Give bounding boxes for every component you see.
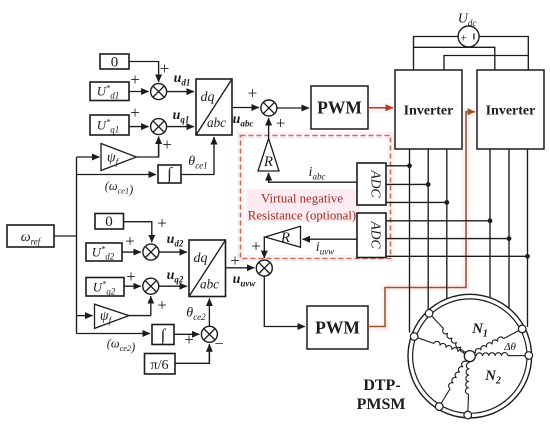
svg-text:π/6: π/6: [151, 358, 169, 373]
label N1: [471, 321, 488, 340]
svg-text:PWM: PWM: [315, 318, 360, 338]
plus sign zero2: [157, 214, 167, 233]
box U*d2: [86, 243, 122, 262]
label N2: [484, 368, 501, 387]
box PWM2: [307, 306, 368, 349]
svg-text:+: +: [276, 114, 286, 133]
label i_abc: [309, 165, 326, 182]
svg-text:Virtual negative: Virtual negative: [261, 192, 343, 206]
wire dq2 to sum uuvw: [226, 267, 255, 269]
dc source U_dc: [458, 26, 479, 47]
box ADC2: [357, 213, 386, 258]
plus sign uabc bottom: [276, 114, 286, 133]
plus sign U*d2: [125, 232, 135, 251]
svg-text:Inverter: Inverter: [404, 104, 454, 119]
amplifier psi_f1: [101, 144, 137, 171]
box zero 1: [100, 54, 129, 71]
plus sign psi_f2: [157, 296, 167, 315]
label u_d2: [167, 232, 184, 249]
wire bus to psi_f1: [77, 156, 100, 158]
label i_uvw: [316, 240, 334, 257]
wire ADC2 tap v: [386, 236, 511, 241]
wire inverter1 phase a: [409, 149, 411, 333]
wire pi6 to sum theta2: [175, 344, 209, 363]
wire speed bus vertical: [76, 157, 78, 334]
svg-text:−: −: [214, 336, 223, 353]
wire psi_f1 to sum uq1: [137, 137, 159, 157]
minus sign theta2: [214, 336, 223, 353]
wire dq1 to sum uabc: [232, 107, 259, 109]
plus sign uabc left: [248, 84, 258, 103]
box pi/6: [145, 354, 176, 375]
motor stator outer ring: [408, 294, 532, 418]
wire PWM2 to inverter2 (brown): [368, 112, 475, 327]
wire sum uq1 to dq1: [167, 126, 194, 128]
wire dc minus rail: [479, 37, 528, 71]
motor hub: [464, 351, 475, 362]
wire sum theta2 to dq2: [208, 299, 210, 327]
wire omega_ref to bus: [54, 235, 77, 237]
wire ADC1 tap a: [386, 163, 412, 168]
summing junction ud2: [143, 244, 159, 260]
box omega_ref: [7, 225, 54, 247]
svg-text:+: +: [130, 70, 140, 89]
plus sign U*d1: [130, 70, 140, 89]
svg-text:dq: dq: [194, 251, 208, 266]
svg-text:+: +: [251, 237, 261, 256]
label theta_ce2: [186, 306, 206, 323]
amplifier psi_f2: [95, 304, 130, 328]
svg-text:+: +: [157, 296, 167, 315]
svg-text:Resistance (optional): Resistance (optional): [248, 209, 356, 223]
label u_q1: [173, 108, 190, 125]
label theta_ce1: [188, 154, 207, 171]
wire integrator2 to sum theta2: [174, 333, 199, 335]
wire dc plus branch to inverter2: [414, 47, 495, 70]
label u_uvw: [233, 272, 257, 289]
motor winding N2 phase u coil + terminal: [409, 332, 465, 358]
wire sum uabc to PWM1: [277, 107, 309, 109]
plus sign uuvw top: [251, 237, 261, 256]
summing junction uq2: [143, 278, 159, 294]
box zero 2: [95, 214, 124, 231]
wire U*d1 to sum ud1: [129, 91, 149, 93]
label u_q2: [167, 268, 184, 285]
wire U*q2 to sum uq2: [124, 285, 141, 287]
wire ADC2 tap u: [386, 218, 492, 223]
box inverter 2: [477, 70, 544, 149]
label u_d1: [174, 71, 191, 88]
wire ADC1 tap b: [386, 182, 431, 187]
svg-text:abc: abc: [207, 115, 226, 130]
summing junction theta2: [201, 326, 217, 342]
box U*q1: [90, 115, 129, 135]
label U_dc: [458, 12, 477, 29]
box integrator 2: [152, 325, 174, 346]
box inverter 1: [395, 70, 462, 149]
svg-text:+: +: [248, 84, 258, 103]
wire dc plus rail: [414, 37, 459, 71]
wire ADC1 tap c: [386, 200, 449, 205]
svg-text:Inverter: Inverter: [486, 104, 536, 119]
svg-text:PWM: PWM: [317, 98, 362, 118]
label u_abc: [233, 112, 254, 129]
wire inverter2 phase v: [508, 149, 510, 309]
svg-text:R: R: [263, 154, 273, 170]
summing junction uq1: [151, 119, 167, 135]
wire inverter1 phase c: [446, 149, 448, 299]
wire U*q1 to sum uq1: [129, 126, 149, 128]
label delta theta: [503, 341, 516, 353]
svg-text:+: +: [126, 267, 136, 286]
wire bus to psi_f2: [77, 315, 93, 317]
svg-text:DTP-: DTP-: [363, 377, 400, 394]
wire zero2 to sum ud2: [124, 222, 152, 243]
block dq/abc 1: [196, 79, 232, 135]
summing junction ud1: [151, 84, 167, 100]
wire sum ud2 to dq2: [159, 251, 187, 253]
svg-text:0: 0: [105, 214, 113, 230]
svg-text:+: +: [162, 135, 172, 154]
summing junction uabc: [261, 100, 277, 116]
svg-text:+: +: [184, 330, 194, 349]
plus sign psi_f1: [162, 135, 172, 154]
wire sum uq2 to dq2: [159, 285, 187, 287]
amplifier R1: [258, 139, 279, 172]
motor winding N2 phase w coil + terminal: [476, 352, 532, 360]
svg-text:abc: abc: [200, 277, 219, 292]
wire zero1 to sum ud1: [129, 62, 159, 83]
box PWM1: [311, 86, 368, 129]
svg-text:R: R: [280, 230, 290, 246]
svg-text:+: +: [125, 232, 135, 251]
plus sign U*q1: [130, 103, 140, 122]
svg-text:+: +: [460, 31, 467, 45]
wire sum ud1 to dq1: [167, 91, 194, 93]
motor winding N2 phase v coil + terminal: [464, 362, 474, 419]
svg-text:+: +: [157, 214, 167, 233]
motor winding N1 phase b coil + terminal: [434, 360, 470, 412]
svg-text:dq: dq: [201, 90, 215, 105]
box U*q2: [86, 278, 124, 297]
wire iabc to R1: [269, 173, 357, 182]
plus sign theta2 left: [184, 330, 194, 349]
wire R1 to sum uabc: [268, 118, 270, 139]
label virtual negative: [261, 192, 343, 206]
svg-text:+: +: [160, 59, 170, 78]
label resistance optional: [248, 209, 356, 223]
label omega_ce1: [105, 179, 133, 197]
block dq/abc 2: [189, 240, 226, 297]
label DTP-PMSM: [357, 377, 406, 413]
svg-text:ADC: ADC: [369, 221, 384, 250]
label omega_ce2: [107, 337, 135, 355]
motor stator inner ring: [413, 299, 527, 413]
wire bus to integrator 1: [77, 174, 157, 176]
wire sum uuvw to PWM2: [264, 276, 305, 326]
box U*d1: [90, 82, 129, 101]
svg-text:ADC: ADC: [369, 170, 384, 199]
svg-text:+: +: [130, 103, 140, 122]
svg-text:PMSM: PMSM: [357, 396, 406, 413]
plus sign uuvw left: [230, 251, 240, 270]
svg-text:Δθ: Δθ: [503, 341, 516, 353]
dashed box virtual resistance: [241, 136, 391, 259]
box ADC1: [357, 163, 386, 205]
motor winding N1 phase a coil + terminal: [424, 308, 468, 354]
wire integrator1 to dq1 theta: [181, 137, 214, 175]
plus sign zero1: [160, 59, 170, 78]
wire R2 to sum uuvw: [263, 237, 266, 258]
amplifier R2: [265, 226, 300, 247]
svg-text:+: +: [230, 251, 240, 270]
motor winding N1 phase c coil + terminal: [474, 324, 527, 357]
wire iuvw to R2: [303, 238, 358, 240]
wire psi_f2 to sum uq2: [129, 296, 151, 315]
wire inverter2 phase u: [489, 149, 491, 298]
summing junction uuvw: [256, 260, 272, 276]
wire dc minus branch to inverter1: [444, 56, 528, 71]
wire inverter2 phase w: [527, 149, 529, 327]
wire PWM1 to inverter1 (red): [368, 107, 393, 109]
wire inverter1 phase b: [427, 149, 429, 310]
svg-text:0: 0: [111, 55, 119, 71]
plus sign U*q2: [126, 267, 136, 286]
wire bus to integrator 2: [77, 333, 151, 335]
wire ADC2 tap w: [386, 254, 530, 259]
wire U*d2 to sum ud2: [122, 251, 141, 253]
box integrator 1: [158, 164, 181, 184]
